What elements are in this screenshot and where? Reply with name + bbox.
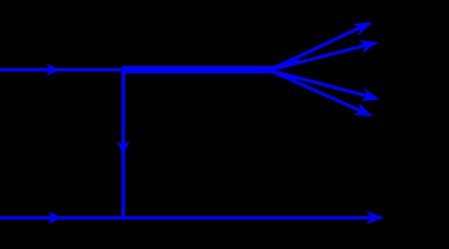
arrow on fan line 2 <box>359 36 380 53</box>
wire: fan line 3 (shallow down) <box>268 70 374 98</box>
arrow on fan line 3 <box>360 88 381 106</box>
arrow on lower line (end) <box>366 211 385 224</box>
arrow on fan line 1 <box>353 16 375 36</box>
arrow on exchanged boson (downward) <box>117 141 130 154</box>
wire: exchanged boson (vertical) <box>121 70 125 218</box>
wire: fan line 4 (steep down) <box>268 69 367 113</box>
wire: vertex wedge filler (lower pair) <box>269 71 297 81</box>
wire: thick scattered line (top middle) <box>122 66 271 73</box>
wire: fan line 2 (shallow up) <box>268 44 372 71</box>
wire: lower hadron line (bottom) <box>0 216 380 219</box>
arrow on fan line 4 <box>353 103 375 123</box>
arrow on lower line (mid) <box>48 211 61 224</box>
wire: incoming lepton line (top left) <box>0 68 124 71</box>
arrow on incoming lepton line <box>46 63 59 76</box>
wire: fan line 1 (steep up) <box>268 25 367 71</box>
wire: vertex wedge filler (upper pair) <box>269 60 297 70</box>
